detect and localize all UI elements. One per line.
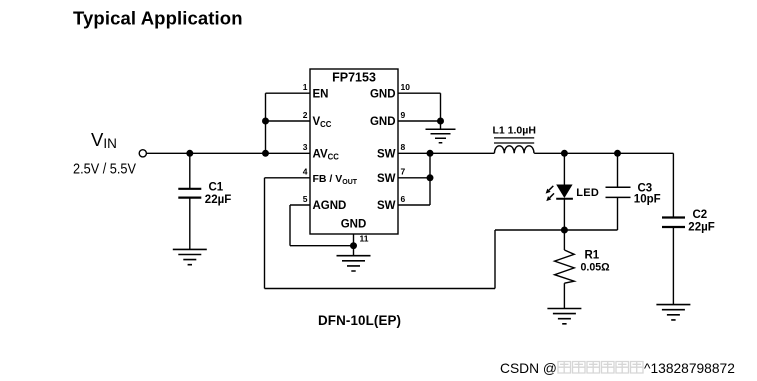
VIN voltage label 2.5V / 5.5V xyxy=(73,161,136,178)
wire GND pin 10 vertical xyxy=(440,93,442,129)
svg-text:EN: EN xyxy=(313,88,329,100)
svg-text:2.5V / 5.5V: 2.5V / 5.5V xyxy=(73,161,136,178)
capacitor C2 bottom lead xyxy=(672,227,674,305)
wire FB pin 4 stub xyxy=(265,177,311,179)
wire output node to C2 xyxy=(672,153,674,217)
svg-text:AGND: AGND xyxy=(313,200,347,212)
pin 2 label VCC xyxy=(313,116,332,129)
junction VCC rail dot xyxy=(262,118,269,125)
capacitor C2 plates xyxy=(662,218,685,228)
R1 value label 0.05 ohm xyxy=(581,261,611,273)
svg-text:1: 1 xyxy=(303,82,308,92)
svg-text:22µF: 22µF xyxy=(688,222,714,234)
svg-text:5: 5 xyxy=(303,194,308,204)
wire sense node horizontal xyxy=(495,229,618,231)
pin 1 number xyxy=(303,82,308,92)
svg-text:^13828798872: ^13828798872 xyxy=(644,361,735,376)
resistor R1 bottom lead xyxy=(563,283,565,308)
ground for R1 xyxy=(547,309,581,324)
capacitor C3 bottom lead xyxy=(617,197,619,230)
svg-text:AVCC: AVCC xyxy=(313,149,340,162)
junction LED anode dot xyxy=(561,150,568,157)
wire SW pin 8 to inductor xyxy=(398,152,494,154)
resistor R1 top lead xyxy=(563,230,565,250)
svg-text:R1: R1 xyxy=(585,249,600,261)
wire SW pin 7 stub xyxy=(398,177,430,179)
svg-text:Typical Application: Typical Application xyxy=(73,7,243,28)
ground for GND pins xyxy=(426,129,456,143)
inductor L1 core bars xyxy=(494,138,534,143)
svg-text:2: 2 xyxy=(303,110,308,120)
C3 reference label xyxy=(638,183,653,195)
svg-text:SW: SW xyxy=(377,149,396,161)
svg-text:C1: C1 xyxy=(209,182,224,194)
pin 9 number xyxy=(401,110,406,120)
capacitor C3 top lead xyxy=(617,153,619,187)
C3 value label 10pF xyxy=(634,194,661,206)
wire AGND pin 5 stub xyxy=(290,204,310,206)
svg-text:GND: GND xyxy=(341,219,367,231)
capacitor C1 top lead xyxy=(189,153,191,188)
ground for C1 xyxy=(173,249,207,264)
wire inductor to output node xyxy=(534,152,673,154)
pin 11 number xyxy=(360,234,369,244)
R1 reference label xyxy=(585,249,600,261)
net label VIN xyxy=(91,129,117,151)
wire VIN to AVCC pin 3 xyxy=(146,152,310,154)
svg-text:VIN: VIN xyxy=(91,129,117,151)
svg-text:SW: SW xyxy=(377,200,396,212)
wire FB bottom horizontal xyxy=(265,288,496,290)
LED D1 cathode lead xyxy=(563,199,565,230)
wire AGND vertical xyxy=(289,205,291,246)
pin 1 label EN xyxy=(313,88,329,100)
svg-text:VCC: VCC xyxy=(313,116,332,129)
svg-text:3: 3 xyxy=(303,142,308,152)
wire SW tie vertical xyxy=(429,153,431,205)
watermark CSDN text xyxy=(500,361,735,376)
svg-text:6: 6 xyxy=(401,194,406,204)
svg-text:SW: SW xyxy=(377,173,396,185)
pin 8 number xyxy=(401,142,406,152)
pin 7 number xyxy=(401,167,406,177)
wire SW pin 6 stub xyxy=(398,204,430,206)
junction SW pin 8 dot xyxy=(427,150,434,157)
wire VCC pin 2 stub xyxy=(266,120,311,122)
pin 10 number xyxy=(401,82,411,92)
wire FB riser to sense node xyxy=(494,230,496,289)
LED label xyxy=(576,187,599,199)
svg-text:GND: GND xyxy=(370,116,396,128)
junction sense node dot xyxy=(561,227,568,234)
C1 value label 22uF xyxy=(205,194,231,206)
pin 10 label GND xyxy=(370,88,396,100)
IC name label FP7153 xyxy=(332,71,376,85)
capacitor C1 bottom lead xyxy=(189,198,191,250)
wire GND pin 10 stub xyxy=(398,92,441,94)
svg-text:4: 4 xyxy=(303,167,308,177)
LED D1 triangle xyxy=(556,185,572,199)
node VIN input terminal xyxy=(139,150,146,157)
resistor R1 zigzag xyxy=(555,250,575,283)
wire FB vertical down xyxy=(264,178,266,289)
pin 2 number xyxy=(303,110,308,120)
pin 3 number xyxy=(303,142,308,152)
junction C3 top dot xyxy=(614,150,621,157)
wire GND pin 9 stub xyxy=(398,120,441,122)
watermark CJK glyph blocks xyxy=(558,362,643,374)
wire EN pin 1 stub xyxy=(266,92,311,94)
pin 3 label AVCC xyxy=(313,149,340,162)
svg-text:C2: C2 xyxy=(693,209,708,221)
pin 5 number xyxy=(303,194,308,204)
junction SW pin 7 dot xyxy=(427,174,434,181)
ground for C2 xyxy=(656,305,690,320)
svg-text:9: 9 xyxy=(401,110,406,120)
C2 value label 22uF xyxy=(688,222,714,234)
pin 6 number xyxy=(401,194,406,204)
svg-text:L1 1.0µH: L1 1.0µH xyxy=(493,125,536,137)
svg-text:8: 8 xyxy=(401,142,406,152)
LED D1 anode lead xyxy=(563,153,565,184)
svg-text:10: 10 xyxy=(401,82,411,92)
svg-text:GND: GND xyxy=(370,88,396,100)
svg-text:FP7153: FP7153 xyxy=(332,71,376,85)
junction AVCC rail dot xyxy=(262,150,269,157)
junction pad node dot xyxy=(350,242,357,249)
svg-text:11: 11 xyxy=(360,234,369,244)
pin 4 number xyxy=(303,167,308,177)
pin 9 label GND xyxy=(370,116,396,128)
pin 5 label AGND xyxy=(313,200,347,212)
ground for pin 11 pad xyxy=(337,256,371,271)
svg-text:CSDN @: CSDN @ xyxy=(500,361,557,376)
L1 value label xyxy=(493,125,536,137)
inductor L1 winding xyxy=(494,146,534,154)
svg-text:22µF: 22µF xyxy=(205,194,231,206)
pin 11 exposed pad label GND xyxy=(341,219,367,231)
pin 7 label SW xyxy=(377,173,396,185)
capacitor C1 plates xyxy=(178,189,201,198)
svg-text:7: 7 xyxy=(401,167,406,177)
LED D1 emission arrows xyxy=(546,186,554,201)
C1 reference label xyxy=(209,182,224,194)
junction C1 tap dot xyxy=(186,150,193,157)
junction GND pins dot xyxy=(437,118,444,125)
svg-text:LED: LED xyxy=(576,187,599,199)
wire EN vertical to VCC/AVCC rail xyxy=(265,93,267,153)
package label DFN-10L(EP) xyxy=(318,313,401,328)
pin 8 label SW xyxy=(377,149,396,161)
svg-text:DFN-10L(EP): DFN-10L(EP) xyxy=(318,313,401,328)
pin 4 label FB/VOUT xyxy=(313,173,358,186)
svg-text:FB / VOUT: FB / VOUT xyxy=(313,173,358,186)
C2 reference label xyxy=(693,209,708,221)
LED D1 cathode bar xyxy=(556,198,573,200)
title Typical Application xyxy=(73,7,243,28)
wire AGND to pad node xyxy=(290,245,354,247)
svg-text:10pF: 10pF xyxy=(634,194,661,206)
svg-text:0.05Ω: 0.05Ω xyxy=(581,261,611,273)
pin 6 label SW xyxy=(377,200,396,212)
capacitor C3 plates xyxy=(606,187,631,197)
wire pin 11 pad stem xyxy=(353,234,355,256)
IC U1 FP7153 body xyxy=(310,69,398,234)
